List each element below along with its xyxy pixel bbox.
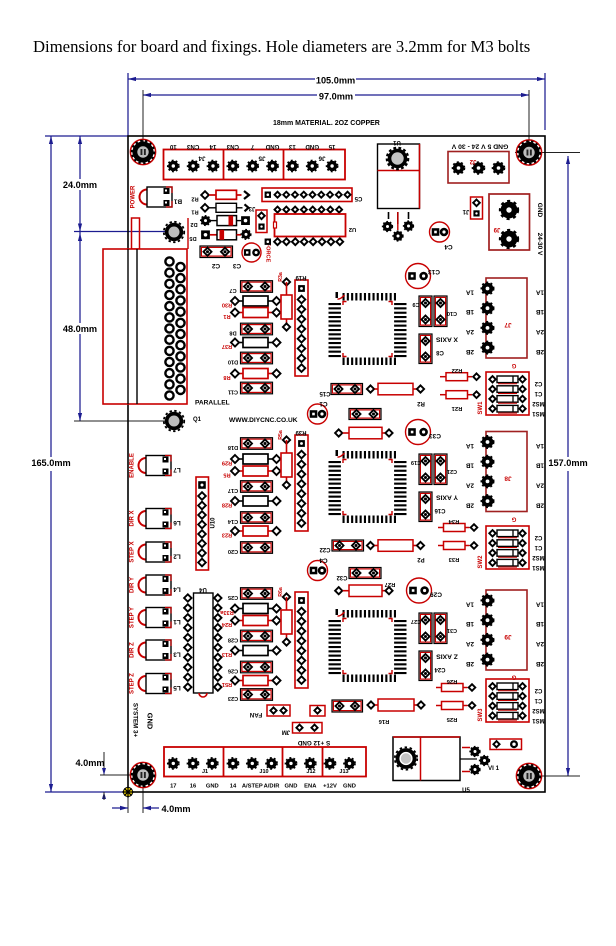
svg-text:GND: GND: [146, 713, 155, 730]
svg-text:L4: L4: [173, 586, 181, 593]
svg-text:157.0mm: 157.0mm: [548, 458, 587, 468]
svg-text:48.0mm: 48.0mm: [63, 324, 97, 334]
svg-text:1A: 1A: [536, 601, 545, 608]
resistor network RN3: [295, 592, 308, 688]
svg-text:15: 15: [328, 143, 335, 150]
capacitor C2: [200, 246, 233, 258]
svg-text:2A: 2A: [536, 482, 545, 489]
resistor R2: [367, 385, 374, 392]
capacitor C7: [241, 281, 273, 293]
svg-text:R21: R21: [451, 405, 462, 411]
connector J8 Y motor: [486, 432, 527, 512]
svg-text:1A: 1A: [466, 601, 475, 608]
svg-text:D18: D18: [228, 444, 238, 450]
terminal pad +12V: [324, 758, 335, 769]
svg-text:PARALLEL: PARALLEL: [195, 400, 230, 407]
svg-text:2B: 2B: [466, 660, 475, 667]
svg-text:1B: 1B: [536, 620, 545, 627]
svg-text:MS1: MS1: [532, 564, 545, 570]
svg-text:CN3: CN3: [186, 143, 199, 150]
capacitor C26: [241, 661, 273, 673]
pad row below U2: [265, 239, 271, 245]
svg-text:1A: 1A: [536, 442, 545, 449]
svg-text:L5: L5: [173, 684, 181, 691]
svg-text:ENA: ENA: [304, 784, 317, 790]
svg-text:C2: C2: [534, 687, 542, 693]
pad row upper: [275, 207, 281, 213]
terminal pad 16: [187, 758, 198, 769]
svg-text:STEP Y: STEP Y: [130, 607, 136, 628]
VR1 pad 2: [393, 231, 403, 241]
connector D7: [310, 706, 325, 717]
svg-text:2A: 2A: [536, 640, 545, 647]
svg-text:GND: GND: [305, 143, 319, 150]
svg-text:L1: L1: [173, 618, 181, 625]
resistor R8: [235, 373, 243, 375]
svg-text:FAN: FAN: [249, 711, 262, 718]
svg-text:MS2: MS2: [532, 554, 545, 560]
svg-text:JM: JM: [282, 729, 290, 735]
svg-text:2A: 2A: [466, 482, 475, 489]
svg-text:R3a: R3a: [278, 272, 284, 282]
svg-text:U5: U5: [462, 788, 470, 794]
svg-text:1B: 1B: [466, 462, 475, 469]
svg-text:1B: 1B: [536, 462, 545, 469]
svg-text:2A: 2A: [536, 328, 545, 335]
svg-text:C13: C13: [428, 268, 440, 275]
VR1 legs: [389, 212, 409, 224]
svg-text:MS1: MS1: [532, 410, 545, 416]
svg-text:C22: C22: [319, 546, 331, 552]
svg-text:C17: C17: [228, 487, 238, 493]
board bottom extension line to left: [45, 791, 128, 793]
capacitor C31: [434, 613, 447, 644]
svg-text:ENABLE: ENABLE: [130, 453, 136, 478]
extension line right x=545: [544, 73, 546, 130]
svg-text:R25: R25: [446, 716, 457, 722]
svg-text:R1: R1: [223, 313, 230, 319]
svg-text:C9: C9: [412, 301, 419, 307]
mounting hole bottom-left: [130, 762, 155, 787]
svg-text:1B: 1B: [536, 308, 545, 315]
DB25 pins column 2: [176, 263, 184, 394]
transistor Q2 FORCE: [242, 243, 261, 262]
resistor P2: [367, 542, 374, 549]
svg-text:10: 10: [169, 143, 176, 150]
pad VI1 b: [480, 756, 490, 766]
DB25 mounting hole upper: [164, 222, 184, 242]
svg-text:SW1: SW1: [478, 401, 484, 415]
terminal pad 14: [207, 160, 218, 171]
svg-text:GND: GND: [343, 784, 356, 790]
svg-text:A/STEP: A/STEP: [242, 784, 263, 790]
LED L7 (ENABLE): [139, 456, 172, 476]
svg-text:R1: R1: [191, 208, 198, 214]
svg-text:1B: 1B: [466, 620, 475, 627]
IC U8 Z-axis driver QFP: [329, 609, 407, 682]
resistor R33a: [235, 608, 243, 610]
svg-text:C8: C8: [436, 349, 444, 355]
capacitor C28: [241, 630, 273, 642]
red trace pair below power: [132, 218, 140, 249]
svg-text:G: G: [511, 516, 516, 522]
svg-text:DIR Y: DIR Y: [130, 577, 136, 593]
terminal pad GND: [267, 160, 278, 171]
U5 legs: [462, 748, 470, 772]
board outline: [128, 136, 545, 792]
extension line at y=421: [74, 420, 168, 422]
svg-text:C20: C20: [228, 548, 238, 554]
svg-text:G: G: [511, 674, 516, 680]
IC U2 socket: [275, 214, 346, 237]
svg-text:C16: C16: [434, 507, 446, 513]
svg-text:R13: R13: [222, 651, 232, 657]
svg-text:C4: C4: [444, 243, 453, 250]
svg-text:C2: C2: [211, 262, 220, 269]
resistor network RN2: [295, 435, 308, 531]
terminal pad A/DIR: [266, 758, 277, 769]
svg-text:J1: J1: [462, 208, 469, 214]
svg-text:MS2: MS2: [532, 707, 545, 713]
svg-text:C32: C32: [336, 574, 348, 580]
svg-text:C1: C1: [534, 697, 542, 703]
capacitor C24: [419, 651, 432, 681]
LED B1 (POWER): [140, 187, 173, 207]
resistor R22: [440, 376, 446, 378]
terminal pad GND: [307, 160, 318, 171]
LED L5 (STEP Z): [139, 674, 172, 694]
svg-text:S +12 GND: S +12 GND: [297, 739, 330, 746]
capacitor C23: [241, 689, 273, 701]
terminal pad 13: [287, 160, 298, 171]
resistor R3 vertical: [283, 278, 290, 285]
LED L1 (STEP Y): [139, 608, 172, 628]
capacitor D18: [241, 438, 273, 450]
resistor network RN1: [295, 280, 308, 376]
dimension 4.0mm left vertical: [103, 752, 105, 775]
IC U4 socket: [194, 593, 214, 693]
capacitor C29 electrolytic: [407, 578, 432, 603]
svg-text:7: 7: [250, 143, 254, 150]
svg-text:1A: 1A: [536, 289, 545, 296]
svg-text:24-30 V: 24-30 V: [536, 233, 543, 256]
svg-text:1A: 1A: [466, 289, 475, 296]
terminal pad 14: [227, 758, 238, 769]
resistor R6 vertical: [283, 436, 290, 443]
svg-text:SYSTEM 3+: SYSTEM 3+: [132, 703, 139, 738]
resistor R1 row: [201, 204, 209, 212]
capacitor C20: [241, 542, 273, 554]
svg-text:R23: R23: [222, 532, 232, 538]
svg-text:16: 16: [190, 784, 197, 790]
svg-text:R29: R29: [222, 460, 232, 466]
capacitor C10: [434, 296, 447, 327]
svg-text:R27: R27: [385, 581, 396, 587]
capacitor D10: [241, 352, 273, 364]
diode D2 row: [201, 216, 211, 226]
inter-band X-Y capacitor C15: [331, 384, 363, 395]
resistor R21: [440, 394, 446, 396]
extension line hole4 right: [537, 775, 580, 777]
svg-text:GND: GND: [536, 203, 543, 218]
extension line hole3 left: [100, 774, 136, 776]
connector CN2 10-pin: [262, 188, 352, 202]
svg-text:STEP Z: STEP Z: [130, 673, 136, 694]
terminal block J4/J5/J6 outline: [164, 150, 346, 180]
svg-text:2B: 2B: [536, 502, 545, 509]
svg-text:C25: C25: [228, 594, 238, 600]
svg-text:G: G: [511, 362, 516, 368]
mounting hole top-right: [516, 140, 541, 165]
svg-text:STEP X: STEP X: [130, 541, 136, 562]
svg-text:14: 14: [209, 143, 216, 150]
resistor R34: [438, 527, 444, 529]
svg-text:C7: C7: [229, 287, 236, 293]
resistor R27a row: [335, 429, 342, 436]
resistor R1: [235, 312, 243, 314]
svg-text:MS2: MS2: [532, 400, 545, 406]
svg-text:R6a: R6a: [278, 587, 284, 597]
voltage regulator U5 bottom: [393, 737, 460, 781]
resistor R2 row: [201, 191, 209, 199]
svg-text:2A: 2A: [466, 328, 475, 335]
svg-text:C23: C23: [228, 695, 238, 701]
LED L6 (DIR X): [139, 509, 172, 529]
svg-text:J4: J4: [198, 155, 205, 162]
svg-text:GND: GND: [206, 784, 219, 790]
svg-text:2A: 2A: [466, 640, 475, 647]
IC U6 X-axis driver QFP: [329, 292, 407, 365]
svg-text:C10: C10: [447, 310, 457, 316]
svg-text:DIR Z: DIR Z: [130, 642, 136, 658]
extension line x=143 to hole: [142, 90, 144, 147]
resistor R7 vertical: [283, 593, 290, 600]
terminal pad 7: [247, 160, 258, 171]
svg-text:J7: J7: [504, 321, 512, 328]
svg-text:P2: P2: [417, 556, 425, 562]
dimension 157.0mm vertical line right: [567, 156, 569, 457]
capacitor C19: [419, 454, 432, 485]
svg-text:C5: C5: [354, 195, 362, 201]
inter-band Y-Z capacitor C22: [332, 540, 364, 551]
svg-text:R19: R19: [295, 274, 307, 280]
svg-text:C1: C1: [534, 390, 542, 396]
svg-text:+12V: +12V: [323, 784, 337, 790]
svg-text:C4: C4: [319, 557, 328, 564]
pad VI1 c: [470, 765, 480, 775]
svg-text:J6: J6: [318, 155, 325, 162]
capacitor C13 electrolytic: [406, 264, 431, 289]
pad VI1 a: [470, 747, 480, 757]
svg-text:CN3: CN3: [226, 143, 239, 150]
svg-text:C21: C21: [447, 468, 457, 474]
resistor R33: [438, 545, 444, 547]
svg-text:R2: R2: [417, 400, 425, 406]
IC U7 Y-axis driver QFP: [329, 450, 407, 523]
svg-text:R24: R24: [221, 621, 232, 627]
dimension 24.0mm vertical line: [79, 136, 81, 179]
terminal pad 15: [327, 160, 338, 171]
svg-text:J8: J8: [504, 475, 512, 482]
svg-text:X AXIS: X AXIS: [436, 336, 458, 343]
drill origin marker: [122, 786, 134, 798]
svg-text:R51: R51: [222, 681, 232, 687]
svg-text:R30: R30: [222, 302, 232, 308]
svg-text:2B: 2B: [466, 502, 475, 509]
capacitor C32: [349, 568, 381, 579]
IC U10 socket: [196, 477, 209, 570]
svg-text:J1: J1: [202, 769, 208, 775]
capacitor C12: [308, 404, 328, 424]
connector J11 power out 2-pad: [489, 194, 530, 250]
svg-text:R8: R8: [223, 374, 230, 380]
svg-text:C24: C24: [434, 666, 446, 672]
capacitor C14: [241, 512, 273, 524]
svg-text:R16: R16: [378, 718, 389, 724]
svg-text:105.0mm: 105.0mm: [316, 76, 355, 86]
svg-text:2B: 2B: [536, 348, 545, 355]
svg-text:VI 1: VI 1: [488, 765, 500, 772]
capacitor C4: [430, 222, 450, 242]
svg-text:J2: J2: [469, 158, 476, 164]
dimension 105.0mm horizontal line: [128, 78, 315, 80]
svg-text:C14: C14: [227, 518, 238, 524]
svg-text:D2: D2: [190, 221, 197, 227]
svg-text:C29: C29: [430, 591, 442, 598]
svg-text:J3: J3: [248, 205, 255, 211]
svg-text:Q1: Q1: [193, 417, 202, 423]
svg-text:L7: L7: [173, 466, 181, 473]
svg-text:2B: 2B: [466, 348, 475, 355]
svg-text:L6: L6: [173, 519, 181, 526]
svg-text:C11: C11: [228, 389, 238, 395]
svg-text:POWER: POWER: [131, 185, 137, 208]
svg-text:DIR X: DIR X: [130, 510, 136, 526]
svg-text:R2: R2: [191, 196, 198, 202]
svg-text:L3: L3: [173, 651, 181, 658]
svg-text:C1: C1: [534, 544, 542, 550]
capacitor D8: [241, 323, 273, 335]
dimension 165.0mm vertical line: [50, 136, 52, 457]
connector FAN: [267, 705, 290, 716]
svg-text:C2: C2: [534, 380, 542, 386]
svg-text:165.0mm: 165.0mm: [31, 458, 70, 468]
terminal pad A/STEP: [247, 758, 258, 769]
svg-text:J5: J5: [258, 155, 265, 162]
svg-text:GND: GND: [265, 143, 279, 150]
resistor R24: [235, 620, 243, 622]
svg-text:WWW.DIYCNC.CO.UK: WWW.DIYCNC.CO.UK: [229, 417, 298, 424]
resistor R23: [235, 530, 243, 532]
resistor R29: [235, 458, 243, 460]
svg-text:J9: J9: [504, 633, 512, 640]
connector J10 2-pin: [471, 197, 483, 219]
svg-text:D5: D5: [189, 235, 196, 241]
dimension 48.0mm vertical line: [79, 232, 81, 324]
svg-text:2B: 2B: [536, 660, 545, 667]
board top extension line to left: [45, 135, 128, 137]
capacitor C9: [419, 296, 432, 327]
DIP switch SW3: [486, 679, 529, 722]
terminal pad GND: [285, 758, 296, 769]
terminal pad CN3: [227, 160, 238, 171]
svg-text:A/DIR: A/DIR: [264, 784, 281, 790]
svg-text:Z AXIS: Z AXIS: [436, 653, 458, 660]
svg-text:R22: R22: [452, 367, 463, 373]
capacitor C17: [241, 481, 273, 493]
svg-text:R39: R39: [295, 429, 307, 435]
resistor R27 row: [335, 587, 342, 594]
svg-text:C3: C3: [232, 262, 241, 269]
svg-text:C15: C15: [319, 390, 331, 396]
svg-text:U2: U2: [349, 226, 356, 232]
terminal pad 10: [168, 160, 179, 171]
svg-text:J12: J12: [306, 769, 315, 775]
resistor R13: [235, 650, 243, 652]
resistor R25: [436, 705, 442, 707]
capacitor C16: [419, 492, 432, 522]
svg-text:13: 13: [288, 143, 295, 150]
capacitor C25: [241, 588, 273, 600]
svg-text:Y AXIS: Y AXIS: [436, 494, 458, 501]
svg-text:R26: R26: [446, 678, 457, 684]
DIP switch SW2: [486, 526, 529, 569]
svg-text:D10: D10: [228, 359, 238, 365]
connector J14: [293, 723, 323, 734]
svg-text:SW2: SW2: [478, 555, 484, 569]
svg-text:R33: R33: [448, 556, 459, 562]
resistor R16: [367, 701, 374, 708]
svg-text:B1: B1: [173, 198, 182, 205]
VR1 pad 1: [383, 222, 393, 232]
dimension 4.0mm bottom horizontal: [127, 797, 129, 813]
capacitor C11: [241, 382, 273, 394]
connector J15 jumper: [490, 739, 522, 750]
svg-text:J13: J13: [339, 769, 348, 775]
svg-text:1A: 1A: [466, 442, 475, 449]
svg-text:R33a: R33a: [219, 609, 233, 615]
svg-text:Dimensions for board and fixin: Dimensions for board and fixings. Hole d…: [33, 37, 530, 56]
capacitor C33 electrolytic: [406, 420, 431, 445]
extension line x=529 to hole: [528, 90, 530, 148]
svg-text:C2: C2: [534, 534, 542, 540]
capacitor C21: [434, 454, 447, 485]
capacitor C4a electrolytic: [308, 561, 328, 581]
svg-text:U1: U1: [393, 139, 401, 145]
diode D3 row: [201, 230, 210, 239]
svg-text:U4: U4: [199, 586, 207, 592]
connector J2 3-pin: [448, 152, 509, 184]
capacitor C32a: [349, 409, 381, 420]
svg-text:GND 5 V 24 - 30 V: GND 5 V 24 - 30 V: [451, 143, 508, 150]
svg-text:4.0mm: 4.0mm: [75, 758, 104, 768]
svg-text:J9: J9: [493, 226, 500, 232]
svg-text:FORCE: FORCE: [265, 243, 271, 263]
svg-text:C33: C33: [429, 432, 441, 439]
svg-text:C27: C27: [411, 618, 421, 624]
svg-text:C31: C31: [447, 627, 457, 633]
svg-text:17: 17: [170, 784, 176, 790]
LED L3 (DIR Z): [139, 640, 172, 660]
capacitor C8: [419, 334, 432, 364]
terminal pad ENA: [305, 758, 316, 769]
svg-text:R5a: R5a: [278, 430, 284, 440]
terminal pad GND: [207, 758, 218, 769]
svg-text:R37: R37: [222, 343, 232, 349]
LED L4 (DIR Y): [139, 575, 172, 595]
resistor R5: [235, 470, 243, 472]
resistor R28: [235, 500, 243, 502]
